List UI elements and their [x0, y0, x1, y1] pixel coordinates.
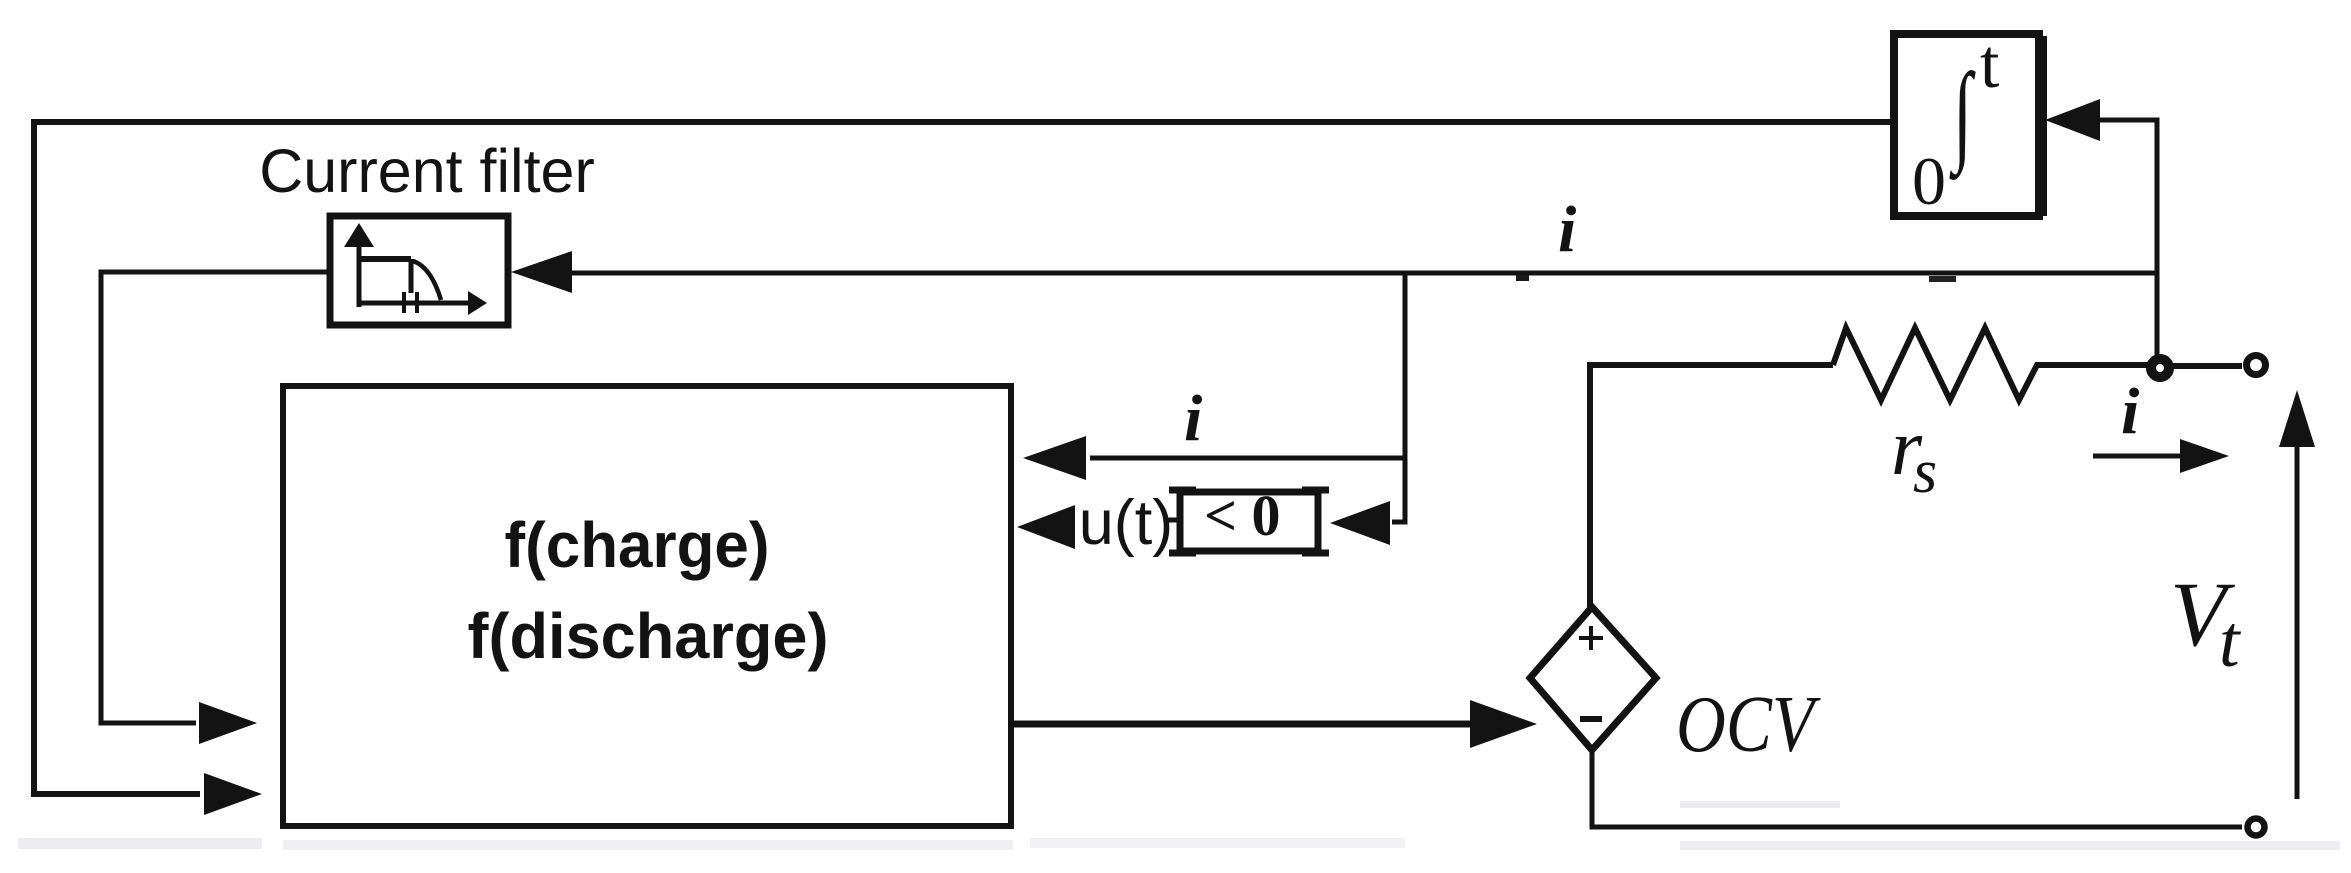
arrowhead into OCV source	[1470, 700, 1537, 748]
arrowhead of terminal current arrow	[2180, 439, 2229, 473]
arrowhead of i branch into f box	[1023, 436, 1086, 480]
filter icon x axis	[357, 301, 472, 306]
faint scan band bottom left	[18, 838, 262, 849]
faint scan band below f box	[283, 840, 1013, 850]
wire node to positive terminal	[2172, 363, 2242, 369]
faint scan dashes under OCV label	[1680, 801, 1840, 808]
svg-text:i: i	[2121, 375, 2140, 448]
svg-text:i: i	[1558, 193, 1577, 266]
wire: filter output to f box upper-left input	[101, 272, 330, 723]
svg-text:0: 0	[1912, 143, 1946, 219]
arrowhead into comparator right edge	[1330, 501, 1390, 545]
minus sign inside OCV	[1580, 716, 1602, 722]
resistor rs zigzag	[1833, 328, 2148, 400]
artifact dash below i wire	[1929, 276, 1956, 282]
filter icon knee vertical	[409, 259, 414, 293]
faint scan band bottom right	[1680, 841, 2340, 850]
positive terminal circle	[2247, 356, 2266, 375]
arrowhead into integrator right edge	[2045, 99, 2100, 141]
wire: right vertical sense line from node to integrator	[2098, 120, 2157, 368]
arrowhead into f box lower-left input	[204, 773, 262, 815]
svg-text:t: t	[1980, 26, 2000, 103]
integrator block	[1894, 34, 2039, 216]
svg-text:f(discharge): f(discharge)	[468, 600, 829, 672]
dependent source OCV diamond	[1530, 607, 1656, 750]
svg-text:Current filter: Current filter	[259, 137, 595, 205]
wire: OCV top to resistor	[1590, 365, 1833, 607]
filter icon cutoff marker	[404, 292, 417, 313]
comparator corner serifs	[1169, 490, 1329, 553]
svg-text:i: i	[1184, 382, 1203, 455]
integrator right edge shadow	[2039, 36, 2047, 216]
wire: i branch into f box right side	[1090, 456, 1405, 461]
plus sign inside OCV	[1579, 626, 1603, 650]
svg-text:OCV: OCV	[1676, 681, 1821, 769]
svg-text:f(charge): f(charge)	[505, 509, 770, 581]
filter icon y axis arrowhead	[344, 223, 374, 247]
filter icon rolloff curve	[413, 261, 441, 300]
arrowhead into f box upper-left input	[199, 702, 257, 744]
wire: tap from i line down to comparator	[1392, 274, 1405, 522]
wire stub u(t) to comparator	[1164, 518, 1180, 523]
arrowhead of u(t) into f box right side	[1017, 505, 1075, 549]
filter icon passband flat line	[360, 256, 411, 262]
arrow i at battery terminal	[2093, 454, 2190, 459]
current filter block	[330, 216, 508, 325]
arrowhead into current filter right edge	[511, 251, 572, 293]
artifact tick below i wire near tap	[1516, 275, 1529, 281]
filter icon y axis	[357, 240, 362, 307]
svg-text:s: s	[1913, 438, 1937, 506]
svg-text:t: t	[2219, 601, 2242, 683]
wire: OCV bottom to negative terminal	[1592, 750, 2242, 827]
wire: long current i feedback line	[560, 271, 2157, 276]
filter icon x axis arrowhead	[468, 291, 487, 315]
negative terminal circle	[2248, 819, 2265, 836]
wire: integrator output feedback (top run, left column, bottom run into f box)	[34, 122, 1891, 794]
svg-text:u(t): u(t)	[1079, 488, 1174, 558]
arrowhead of Vt	[2279, 390, 2315, 447]
faint scan band center bottom	[1030, 838, 1405, 848]
f(charge)/f(discharge) block	[283, 386, 1011, 826]
terminal voltage arrow Vt	[2295, 445, 2300, 799]
svg-text:< 0: < 0	[1204, 483, 1281, 548]
comparator block < 0	[1180, 492, 1318, 551]
wire: f box output to OCV source	[1011, 721, 1480, 728]
node at positive terminal junction	[2151, 359, 2169, 377]
